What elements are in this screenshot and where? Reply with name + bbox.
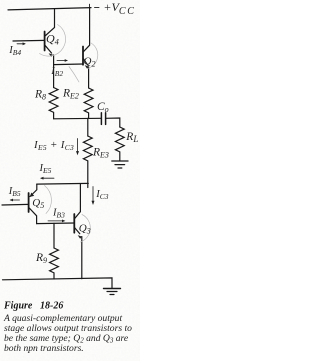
svg-text:both npn transistors.: both npn transistors. xyxy=(4,343,84,354)
svg-text:Figure: Figure xyxy=(3,301,33,312)
svg-text:18-26: 18-26 xyxy=(40,301,63,312)
